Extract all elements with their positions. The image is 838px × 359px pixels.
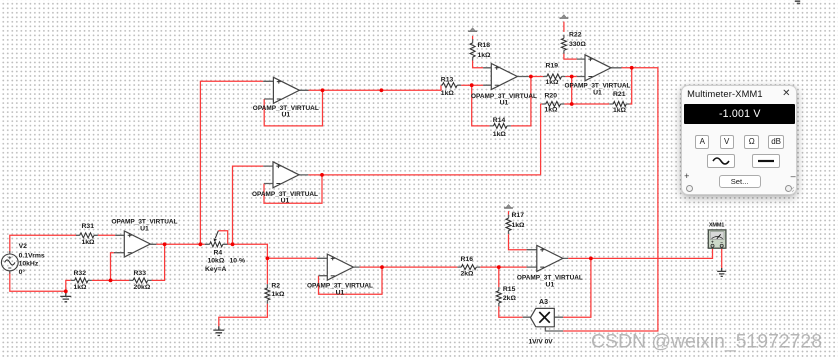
wire U1e output to R19 (529, 76, 543, 78)
resistor R22 (561, 31, 586, 53)
wire R17 power branch red segment (508, 211, 510, 215)
pin stubs U1g (527, 250, 569, 267)
ground below R2 wire (213, 326, 224, 335)
multimeter window Multimeter-XMM1 (681, 85, 797, 196)
op-amp U1g (517, 245, 583, 288)
op-amp U1f (565, 55, 631, 97)
resistor R15 (496, 286, 516, 306)
button V (720, 135, 734, 148)
multimeter display (684, 104, 795, 124)
pin stubs U1f (577, 59, 622, 76)
wire R22 top to power arrow (563, 22, 565, 32)
resistor R31 (76, 223, 98, 246)
op-amp U1e (471, 64, 537, 107)
wire U1d feedback loop (319, 267, 383, 294)
button dB (768, 135, 784, 148)
multimeter instrument icon XMM1 (708, 222, 726, 248)
op-amp U1a (253, 77, 319, 118)
wire R19 node down to R20 line (571, 77, 573, 105)
wire U1c output to potentiometer R4 (156, 243, 204, 245)
plus terminal (686, 185, 693, 192)
wire U1b feedback loop (264, 175, 322, 203)
stray mark top right (795, 1, 800, 3)
wire R4 node up to U1a noninverting input (200, 81, 263, 244)
wire U1b output to R20 corner (308, 174, 540, 176)
potentiometer R4 (205, 231, 245, 273)
wire R33 right up to U1c output (152, 244, 165, 280)
resize grip (787, 185, 795, 193)
wire R32 left to ground node (66, 280, 71, 291)
wire R18 power branch red segment (472, 36, 474, 40)
multiplier A3 (523, 299, 563, 345)
wire R20 left lead (541, 103, 542, 105)
label V2 values (19, 243, 45, 276)
pin stubs U1b (263, 166, 308, 183)
op-amp U1b (252, 162, 318, 205)
button A (695, 135, 709, 148)
power arrow above R17 (504, 204, 513, 208)
wire V2 bottom to ground node (10, 271, 66, 292)
pin stubs U1e (483, 68, 529, 85)
wire R22 bottom to U1f noninverting input (564, 52, 577, 59)
wire R2 bottom to ground (219, 304, 268, 327)
button sine mode (707, 154, 735, 167)
wire U1c inverting input down to R32/R33 node (111, 253, 114, 281)
wire R13 to U1e inverting node (461, 84, 483, 86)
power arrow above R18 (468, 28, 477, 32)
button Ohm (744, 135, 759, 148)
resistor R32 (71, 270, 92, 291)
resistor R17 (506, 212, 525, 234)
wire U1a feedback loop (264, 90, 322, 126)
wire R4 node up to U1b noninverting input (233, 166, 264, 244)
wire R20 to R21 segment (564, 103, 609, 105)
wire U1a output to R13 with jog (309, 85, 442, 90)
wire R32 to R33 segment (92, 279, 129, 281)
button dc mode (752, 154, 780, 167)
wire R4 right to corner node (228, 244, 268, 258)
wire U1e feedback loop through R14 (472, 77, 531, 126)
resistor R2 (265, 282, 285, 303)
minus terminal label (791, 171, 796, 181)
plus terminal label (684, 171, 689, 181)
wire R17 down to U1g noninverting input (509, 234, 527, 250)
resistor R14 (490, 117, 511, 138)
wire U1g output to multimeter XMM1 plus terminal (568, 248, 712, 258)
wire XMM1 minus terminal to ground (721, 248, 723, 268)
wire R16 to U1g inverting node (480, 266, 526, 268)
wire R18 down to U1e noninverting input (473, 60, 484, 68)
svg-text:CSDN @weixin_51972728: CSDN @weixin_51972728 (591, 331, 822, 353)
power arrow above R22 (560, 15, 569, 19)
wire U1f output to A3 lower input (long vertical) (563, 68, 658, 331)
resistor R20 (542, 92, 565, 113)
button Set (719, 175, 761, 188)
ground below R32 / V2 (60, 291, 71, 302)
pin stubs U1c (114, 235, 156, 252)
wire A3 output up to U1g output node (563, 258, 591, 317)
resistor R19 (543, 63, 566, 87)
resistor R16 (457, 256, 480, 277)
ac source V2 (1, 251, 18, 274)
minus terminal (785, 185, 792, 192)
pin stubs U1a (263, 81, 308, 99)
wire V2 top to R31 (10, 235, 76, 254)
ground below XMM1 minus (717, 268, 726, 276)
resistor R13 (441, 76, 461, 96)
wire U1d output to R16 (360, 266, 458, 268)
pin stubs U1d (317, 258, 360, 275)
op-amp U1d (307, 254, 373, 296)
resistor R33 (129, 270, 152, 291)
wire R4 wiper link (218, 231, 227, 245)
wire R16 node down through R15 to A3 input (499, 267, 523, 317)
wire R20 corner down to U1b output line (540, 104, 542, 175)
wire node to U1d noninverting input (267, 257, 317, 259)
op-amp U1c (112, 219, 178, 257)
resistor R21 (609, 91, 629, 114)
wire R21 up to U1f output (630, 68, 632, 104)
wire R19 to U1f inverting input (565, 76, 576, 78)
wire R31 to U1c noninverting input (98, 234, 115, 236)
wire node down to R2 (266, 258, 268, 284)
resistor R18 (470, 39, 491, 60)
